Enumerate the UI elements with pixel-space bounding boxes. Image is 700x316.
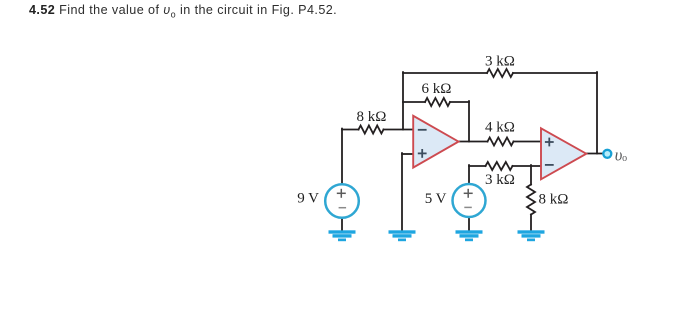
wire: 9V source bottom to ground <box>341 218 343 231</box>
voltage source 9V plus sign <box>337 189 346 198</box>
wire: U2 output to terminal <box>586 153 604 155</box>
label 8 kΩ (vertical resistor) <box>539 192 569 208</box>
svg-text:υo: υo <box>615 145 627 164</box>
ground (below 5V source) <box>456 230 483 241</box>
wire: U1 non-inverting input to ground drop <box>402 153 414 230</box>
label 8 kΩ (input resistor) <box>357 109 387 125</box>
op-amp U2 non-inverting input sign <box>545 138 554 147</box>
svg-text:3 kΩ: 3 kΩ <box>485 54 515 70</box>
ground (below vertical 8k) <box>518 230 545 241</box>
label 3 kΩ (lower) <box>485 172 515 188</box>
wire: U1 output through 4k to U2 non-inverting input <box>458 141 542 143</box>
svg-text:3 kΩ: 3 kΩ <box>485 172 515 188</box>
resistor 8k (input, horizontal) <box>359 126 384 134</box>
ground (below 9V source) <box>329 230 356 241</box>
svg-text:8 kΩ: 8 kΩ <box>357 109 387 125</box>
op-amp U2 <box>541 128 586 179</box>
wire: 5V source bottom to ground <box>468 217 470 231</box>
svg-text:4 kΩ: 4 kΩ <box>485 120 515 136</box>
svg-text:5 V: 5 V <box>425 191 447 207</box>
label 9 V <box>297 191 319 207</box>
voltage source 9V minus sign <box>339 207 347 209</box>
resistor 8k (vertical, to ground) <box>527 185 535 215</box>
wire: vertical 8k resistor bottom to ground <box>530 215 532 231</box>
wire: 5V source top vertical <box>468 165 470 184</box>
wire: junction to vertical 8k resistor top <box>530 165 532 184</box>
op-amp U1 inverting input sign <box>418 129 427 131</box>
svg-text:9 V: 9 V <box>297 191 319 207</box>
op-amp U1 <box>413 116 458 168</box>
resistor 3k (lower, to U2 inverting input) <box>486 162 513 170</box>
label 3 kΩ (top feedback) <box>485 54 515 70</box>
label 6 kΩ <box>422 81 452 97</box>
voltage source 5V plus sign <box>464 189 473 198</box>
label 5 V <box>425 191 447 207</box>
voltage source 5V minus sign <box>464 206 472 208</box>
wire: 6k feedback horizontal <box>403 101 469 103</box>
resistor 4k (between stages) <box>488 138 514 146</box>
op-amp U1 non-inverting input sign <box>418 149 427 158</box>
svg-text:8 kΩ: 8 kΩ <box>539 192 569 208</box>
wire: 9V source top vertical <box>341 129 343 184</box>
svg-text:6 kΩ: 6 kΩ <box>422 81 452 97</box>
voltage source 9V <box>325 184 359 218</box>
label 4 kΩ <box>485 120 515 136</box>
label vo (output) <box>615 145 627 164</box>
voltage source 5V <box>453 184 486 217</box>
wire: 6k feedback right vertical drop to op-amp U1 output <box>468 101 470 141</box>
wire: 9V source to 8k resistor to U1 inverting input <box>342 129 414 131</box>
op-amp U2 inverting input sign <box>545 164 554 166</box>
ground (below U1 non-inverting drop) <box>389 230 416 241</box>
wire: top feedback horizontal (node A to right drop) <box>403 72 597 74</box>
output terminal node vo <box>603 150 611 158</box>
wire: node A vertical (left side of both feedback loops) <box>402 72 404 129</box>
resistor 3k (top feedback) <box>487 69 513 77</box>
wire: right feedback vertical down to output node <box>596 72 598 153</box>
resistor 6k (U1 feedback) <box>425 98 450 106</box>
wire: 5V node through lower 3k to U2 inverting input <box>469 165 542 167</box>
